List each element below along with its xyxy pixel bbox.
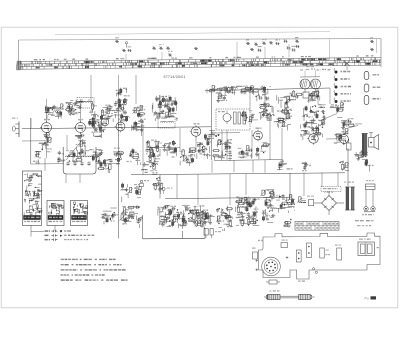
wire vertical feed V1 area bbox=[30, 118, 32, 164]
keying cluster a bbox=[33, 151, 41, 164]
IF strip lower D bbox=[197, 140, 211, 159]
volume pot cluster bbox=[152, 177, 163, 194]
chassis mounting crosses bbox=[256, 256, 289, 271]
signal bus through IF strip bbox=[22, 127, 211, 129]
trimmer capacitor CT11 bbox=[262, 39, 267, 45]
tuning scale band bbox=[16, 55, 381, 70]
IF can bottom bbox=[141, 162, 157, 175]
cap group C5 bbox=[88, 103, 100, 137]
IF input cluster bbox=[152, 95, 178, 121]
discriminator caps bbox=[241, 110, 255, 123]
terminal strip bbox=[295, 222, 339, 231]
rectifier label box (dashed) bbox=[321, 187, 341, 192]
power transformer on chassis bbox=[358, 239, 379, 256]
tone block cluster bbox=[157, 205, 215, 229]
trimmer capacitor CT12 bbox=[269, 41, 273, 45]
trimmer capacitor CT7 bbox=[168, 51, 173, 57]
drive cord pulley bbox=[125, 42, 127, 48]
trimmer capacitor CT9 bbox=[246, 39, 250, 45]
trimmer capacitor CT19 bbox=[292, 46, 296, 52]
tube socket on chassis bbox=[262, 257, 281, 276]
AVC junction parts bbox=[140, 180, 150, 190]
B+ supply bus bbox=[205, 88, 330, 91]
screen chain bbox=[131, 105, 145, 136]
socket callout rows bbox=[31, 226, 94, 241]
tube V6 output bbox=[338, 131, 348, 145]
AVC bus bbox=[131, 173, 345, 175]
trimmer feed wires bbox=[126, 42, 289, 61]
wire horizontal y160 bbox=[215, 159, 282, 162]
mains filter parts bbox=[277, 159, 293, 170]
FM unit lower parts bbox=[307, 91, 320, 103]
converter chain bbox=[113, 98, 129, 125]
legend symbol 4 bbox=[334, 91, 351, 96]
box-right parts bbox=[98, 159, 112, 173]
legend window shape 3 bbox=[364, 96, 380, 105]
trimmer capacitor CT22 bbox=[370, 48, 374, 52]
part number 57714/00/01 bbox=[164, 75, 186, 79]
aerial input connector bbox=[12, 118, 19, 138]
strip-left labels bbox=[283, 219, 292, 228]
mains input cluster bbox=[276, 194, 295, 213]
decoupling caps C21 bbox=[255, 94, 269, 105]
trimmer capacitor CT2 bbox=[122, 49, 126, 53]
trimmer capacitor CT21 bbox=[370, 37, 374, 43]
trimmer capacitor CT13 bbox=[276, 39, 281, 45]
mains transformer T1 bbox=[344, 182, 355, 211]
feedback chain bbox=[260, 189, 277, 222]
earth parts bbox=[297, 197, 306, 203]
V2 cathode parts bbox=[75, 134, 86, 156]
dial cord line bbox=[55, 32, 330, 35]
resistor group R1-R3 bbox=[45, 104, 65, 119]
svg-text:57714/00/01: 57714/00/01 bbox=[164, 75, 186, 79]
notes paragraph bbox=[61, 259, 128, 281]
decoupling caps C20 bbox=[217, 93, 227, 102]
light cluster mid bbox=[330, 103, 344, 118]
V3 anode parts bbox=[204, 131, 220, 141]
volume potentiometer bbox=[114, 148, 124, 160]
mains switch symbol bbox=[345, 61, 350, 70]
chassis small parts bbox=[252, 240, 341, 274]
legend symbol 3 bbox=[334, 83, 351, 88]
output jack pair bbox=[101, 208, 118, 224]
trimmer capacitor CT15 bbox=[258, 46, 262, 52]
audio lower cluster bbox=[119, 206, 142, 228]
wire long vertical to output stage bbox=[117, 100, 119, 239]
keying cluster b bbox=[57, 151, 65, 164]
valve socket view B3 bbox=[71, 201, 89, 226]
trimmer capacitor CT4 bbox=[152, 46, 156, 50]
switch bank B bbox=[238, 146, 253, 159]
chassis outline bbox=[259, 233, 381, 279]
tuning coil pack (rounded box) bbox=[63, 139, 96, 174]
IF transformer S1 (dashed) bbox=[77, 98, 94, 109]
switch bank C bbox=[255, 143, 270, 159]
trimmer capacitor CT1 bbox=[115, 37, 119, 43]
secondary wiring bbox=[22, 75, 362, 205]
valve socket view B2 bbox=[47, 201, 64, 226]
V6 grid parts bbox=[334, 134, 344, 145]
tube V7 osc section bbox=[100, 115, 109, 128]
feedback cap C40 bbox=[162, 187, 173, 194]
legend symbol 1 bbox=[334, 68, 350, 73]
tube V3 IF amp 2 bbox=[190, 123, 201, 138]
wire vertical x348 transformer feed bbox=[347, 148, 349, 186]
IF transformer S2 (dashed) bbox=[158, 117, 175, 128]
trimmer capacitor CT18 bbox=[287, 46, 291, 50]
tube V2 IF amp bbox=[74, 119, 86, 134]
wire vertical x290 bbox=[289, 173, 291, 198]
sheet reference text bbox=[365, 296, 377, 300]
keying cluster c bbox=[68, 150, 83, 163]
rectifier drive cluster bbox=[235, 196, 259, 226]
band trimmer cluster bbox=[116, 88, 130, 97]
AF signal bus bbox=[165, 197, 290, 198]
keying cluster e bbox=[109, 152, 122, 164]
loudspeaker LS bbox=[369, 133, 379, 150]
under T2 parts bbox=[354, 150, 368, 160]
FM tuner unit bbox=[300, 64, 321, 99]
wire vertical x265 bbox=[264, 89, 266, 112]
osc coil group bbox=[100, 105, 114, 121]
legend window shape 2 bbox=[364, 84, 380, 92]
output transformer T2 bbox=[362, 134, 369, 156]
dial assembly frame bbox=[19, 39, 382, 70]
trimmer capacitor CT10 bbox=[254, 42, 258, 46]
trimmer capacitor CT20 bbox=[296, 45, 300, 49]
IF strip lower A bbox=[146, 140, 162, 167]
dial lamp strip bbox=[207, 86, 271, 96]
fuse top parts bbox=[365, 159, 374, 172]
V1 cathode parts bbox=[39, 133, 52, 153]
dial compartment divider bbox=[329, 39, 331, 59]
mains voltage labels bbox=[355, 220, 374, 226]
bass choke bbox=[347, 139, 352, 150]
left mid chain bbox=[274, 95, 292, 130]
wire vertical x160 bbox=[159, 175, 161, 199]
IF strip lower B bbox=[163, 140, 178, 158]
ground return bus bbox=[143, 215, 206, 239]
tube V8 converter section bbox=[115, 119, 125, 133]
trimmer capacitor CT8 bbox=[194, 47, 198, 51]
svg-text:Pu: Pu bbox=[365, 297, 369, 301]
keying cluster f bbox=[127, 148, 141, 165]
FM unit feed wires bbox=[305, 70, 316, 77]
legend symbol 5 bbox=[334, 98, 351, 103]
switch bank A bbox=[212, 139, 232, 161]
IF strip lower C bbox=[180, 148, 196, 166]
ratio det cluster bbox=[259, 104, 275, 121]
discriminator transformer S3 (dashed) bbox=[216, 109, 250, 130]
voltage selector bbox=[302, 162, 311, 172]
trimmer capacitor CT5 bbox=[159, 44, 164, 50]
trimmer capacitor CT3 bbox=[128, 46, 132, 52]
trimmer capacitor CT17 bbox=[295, 37, 299, 43]
interstage parts bbox=[92, 121, 105, 138]
fuse F1 bbox=[366, 180, 376, 190]
valve socket view B1 bbox=[23, 171, 43, 226]
trimmer capacitor CT14 bbox=[250, 48, 254, 52]
trimmer capacitor CT6 bbox=[166, 46, 170, 50]
interconnect cable bbox=[264, 290, 315, 299]
tube V5 AF amp bbox=[307, 130, 318, 145]
wire vertical x211 bbox=[211, 91, 213, 160]
mains plug bbox=[362, 190, 375, 216]
cable pickup component bbox=[266, 280, 305, 284]
speaker connector pieces bbox=[204, 229, 221, 239]
resistor group R4-R6 bbox=[65, 100, 83, 116]
B+ dropper cluster bbox=[288, 90, 303, 101]
V6 anode parts bbox=[341, 118, 355, 134]
keying cluster d bbox=[89, 149, 103, 166]
trimmer capacitor CT16 bbox=[284, 39, 288, 43]
bridge rectifier B1 bbox=[314, 191, 344, 215]
legend window shape 1 bbox=[364, 72, 379, 80]
tube V4 demod bbox=[252, 128, 262, 142]
tube V1 mixer bbox=[40, 119, 52, 134]
AF input cluster bbox=[300, 105, 326, 140]
pilot lamp parts bbox=[339, 161, 349, 171]
dropper resistor bbox=[307, 196, 314, 206]
legend symbol 2 bbox=[334, 76, 350, 81]
audio upper cluster bbox=[121, 183, 142, 202]
tone right cluster bbox=[216, 206, 233, 231]
under-band markings bbox=[300, 69, 330, 71]
